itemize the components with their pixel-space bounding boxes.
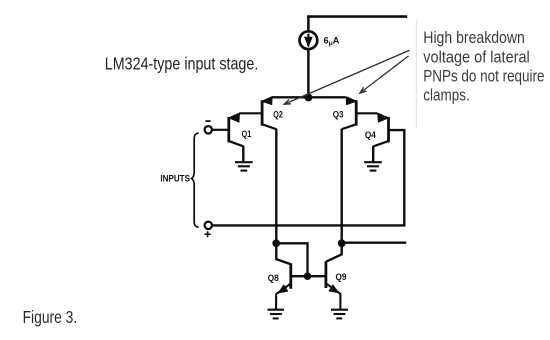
ground (Q8 emitter): [268, 310, 284, 319]
svg-text:INPUTS: INPUTS: [160, 173, 190, 183]
wire: - input to Q1 base: [212, 129, 227, 131]
wire: node A to Q8 collector: [276, 243, 291, 264]
wire: output from Q9 collector: [342, 241, 407, 243]
wire: V+ rail (top): [307, 15, 407, 18]
input terminal + (non-inverting): [205, 222, 212, 238]
transistor Q2 (lateral PNP): [262, 97, 276, 130]
svg-text:Q3: Q3: [333, 109, 344, 120]
svg-text:PNPs do not require: PNPs do not require: [423, 67, 544, 85]
wire: node B to Q9 collector: [326, 243, 342, 262]
annotation arrow B (to Q3 emitter region): [360, 56, 409, 93]
transistor Q1 (input PNP, inverting side): [229, 113, 244, 162]
annotation arrow A (to Q2 emitter region): [284, 50, 409, 104]
transistor Q3 (lateral PNP): [342, 97, 357, 130]
ground (Q4 collector): [364, 162, 382, 170]
svg-text:LM324-type input stage.: LM324-type input stage.: [105, 53, 258, 73]
svg-text:Q8: Q8: [268, 272, 279, 283]
wire: Q8/Q9 base tie: [292, 275, 325, 277]
wire: Q3 base to Q4 emitter: [357, 112, 377, 114]
svg-text:Q1: Q1: [242, 128, 252, 139]
node: tail-current junction: [304, 93, 312, 101]
transistor Q4 (input PNP, non-inverting side): [373, 113, 388, 162]
svg-text:Q9: Q9: [336, 271, 347, 282]
svg-text:High breakdown: High breakdown: [423, 29, 525, 47]
wire: collector-base tie (Q8 diode connection): [276, 243, 307, 276]
wire: emitter rail Q2/Q3: [272, 96, 345, 98]
current source I1 (6uA tail source): [300, 31, 318, 49]
node: mirror base junction: [304, 272, 312, 280]
transistor Q9 (NPN mirror): [326, 262, 341, 310]
node A: Q2 collector / mirror input: [272, 239, 280, 247]
ground (Q9 emitter): [331, 310, 348, 319]
input terminal - (inverting): [205, 121, 212, 133]
svg-text:Q4: Q4: [365, 129, 377, 140]
wire: current source feed: [307, 15, 310, 97]
svg-text:6μA: 6μA: [324, 36, 340, 47]
brace: inputs: [192, 133, 199, 227]
wire: + input to Q4 base: [212, 130, 404, 225]
faint text-box edge: [415, 19, 417, 128]
svg-text:clamps.: clamps.: [423, 87, 469, 105]
svg-text:voltage of lateral: voltage of lateral: [423, 48, 530, 66]
wire: Q3 collector drop: [341, 129, 343, 243]
ground (Q1 collector): [235, 162, 253, 170]
transistor Q8 (NPN mirror, diode-connected): [276, 263, 291, 309]
label: annotation text block: [423, 29, 544, 104]
wire: Q2 collector drop: [275, 129, 277, 243]
node B: Q3 collector / mirror output: [338, 239, 346, 247]
wire: Q1 emitter to Q2 base: [239, 112, 261, 114]
svg-text:Q2: Q2: [273, 109, 283, 120]
svg-text:Figure 3.: Figure 3.: [23, 307, 78, 327]
